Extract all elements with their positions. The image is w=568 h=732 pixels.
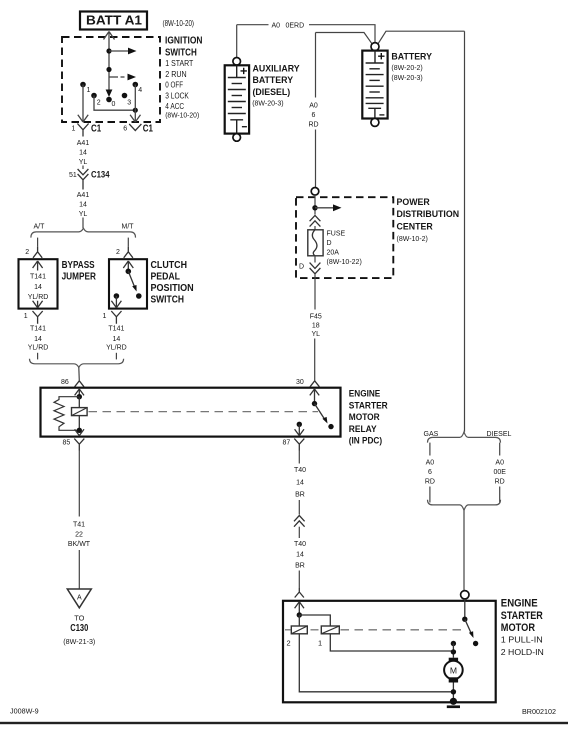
wire A0 0ERD top horizontal	[237, 25, 375, 42]
solenoid motor contact	[473, 641, 478, 646]
wire label A0 6 RD gas	[425, 459, 435, 485]
svg-text:F45: F45	[310, 314, 322, 321]
svg-text:CENTER: CENTER	[397, 221, 434, 231]
svg-text:(8W-10-20): (8W-10-20)	[163, 19, 195, 28]
svg-text:C1: C1	[91, 123, 101, 135]
relay 87 contact node and exit arrow	[295, 422, 304, 436]
svg-text:1 START: 1 START	[165, 58, 193, 68]
svg-text:GAS: GAS	[424, 431, 439, 438]
svg-text:STARTER: STARTER	[501, 610, 543, 622]
engine starter motor box	[283, 601, 496, 703]
PDC bus node with feed arrow	[312, 204, 341, 211]
wire fuse to exit connector	[314, 256, 316, 263]
svg-text:BYPASS: BYPASS	[62, 259, 95, 271]
connector terminal 6 of C1	[123, 123, 153, 135]
svg-text:1: 1	[24, 313, 28, 320]
wire contact 4 to terminal 6 C1	[130, 85, 140, 123]
svg-text:T40: T40	[294, 541, 306, 548]
svg-text:MOTOR: MOTOR	[349, 411, 380, 422]
wire aux battery positive lead	[236, 25, 238, 58]
wire branch to pull-in coil	[299, 615, 330, 626]
svg-text:ENGINE: ENGINE	[349, 388, 381, 399]
wire label A41 14 YL lower	[77, 192, 90, 218]
bypass jumper box	[19, 259, 58, 308]
relay 30 entry arrow	[310, 389, 319, 404]
svg-text:STARTER: STARTER	[349, 399, 388, 410]
svg-text:86: 86	[61, 379, 69, 386]
splice brace A/T M/T	[31, 228, 136, 237]
connector 85	[63, 439, 85, 451]
svg-text:A0: A0	[309, 103, 318, 110]
contact B node dot with START arrow	[106, 48, 136, 55]
wire contact 2 to node under 4	[94, 96, 135, 111]
relay common contact	[312, 401, 317, 406]
svg-text:FUSE: FUSE	[327, 231, 346, 238]
ground G1	[447, 698, 460, 708]
ground bus junction node	[451, 689, 456, 694]
wire contact 1 to terminal 1 C1	[78, 85, 88, 123]
wire label T40 14 BR lower	[294, 541, 306, 569]
engine starter motor relay box	[41, 388, 341, 437]
svg-text:(8W-20-3): (8W-20-3)	[252, 101, 283, 108]
svg-text:0: 0	[112, 101, 116, 108]
contact 0	[106, 97, 115, 108]
svg-text:(8W-21-3): (8W-21-3)	[63, 637, 95, 646]
relay normally-open contact	[328, 424, 333, 429]
connector 87	[283, 439, 305, 451]
wire F45 18 YL to relay 30	[314, 274, 316, 381]
starter control node	[297, 612, 302, 617]
svg-text:T41: T41	[73, 522, 85, 529]
svg-text:14: 14	[296, 552, 304, 559]
wire label T41 22 BK/WT	[68, 522, 91, 548]
svg-text:14: 14	[34, 336, 42, 343]
svg-text:YL: YL	[79, 211, 88, 218]
solenoid switch blade	[465, 619, 474, 638]
contact 3	[122, 93, 132, 107]
wire right feed down to gas/diesel split	[464, 31, 466, 432]
motor feed contact	[451, 641, 456, 646]
svg-text:C134: C134	[91, 168, 110, 179]
contact 1	[80, 82, 90, 94]
aux battery negative terminal	[233, 134, 241, 142]
in-line splice connector	[294, 516, 305, 527]
svg-text:0 OFF: 0 OFF	[165, 80, 183, 90]
svg-text:RD: RD	[308, 122, 318, 129]
svg-text:1: 1	[87, 87, 91, 94]
relay coil lower node	[77, 428, 82, 433]
connector terminal 1 of C1	[72, 123, 102, 137]
contact node dot with dashed ACC arrow	[106, 67, 136, 81]
wire label A0 6 RD	[308, 103, 318, 129]
svg-text:BATTERY: BATTERY	[253, 75, 294, 85]
wire below splice	[298, 527, 300, 538]
relay coil	[72, 397, 88, 431]
wire into starter motor	[298, 571, 300, 589]
svg-text:SWITCH: SWITCH	[151, 294, 185, 306]
contact 4	[133, 82, 143, 94]
svg-text:1 PULL-IN: 1 PULL-IN	[501, 635, 543, 645]
relay label block	[349, 388, 388, 446]
wire solenoid terminal to contact	[464, 599, 466, 619]
wire merge to starter solenoid	[463, 510, 465, 590]
main battery positive terminal	[371, 43, 379, 51]
starter feed connector	[295, 588, 304, 598]
solenoid common contact	[462, 617, 467, 622]
svg-text:14: 14	[79, 150, 87, 157]
svg-text:14: 14	[34, 284, 42, 291]
wire hold-in coil to ground bus	[299, 634, 453, 692]
fuse label	[327, 231, 362, 267]
bypass jumper label	[62, 259, 97, 282]
wire motor feed	[452, 644, 454, 658]
svg-text:A: A	[77, 595, 82, 602]
svg-text:A/T: A/T	[34, 223, 46, 230]
wire into splice	[298, 500, 300, 515]
clutch switch blade	[128, 271, 136, 291]
main battery negative terminal	[371, 118, 379, 126]
wire label A0 00E RD diesel	[493, 459, 506, 485]
motor coil junction node	[451, 649, 456, 654]
off-page triangle A	[67, 589, 91, 608]
svg-text:4: 4	[138, 87, 142, 94]
contact 2	[91, 93, 101, 107]
svg-text:TO: TO	[74, 614, 84, 623]
battery B1	[362, 51, 387, 119]
svg-text:(DIESEL): (DIESEL)	[253, 87, 291, 97]
svg-text:1: 1	[318, 639, 322, 648]
wire pull-in coil to motor node	[330, 634, 453, 651]
starter motor M1	[444, 658, 463, 683]
svg-text:BATT A1: BATT A1	[86, 13, 142, 28]
svg-text:A0: A0	[426, 459, 435, 466]
svg-text:D: D	[299, 264, 304, 271]
wire M/T branch	[127, 238, 129, 247]
wire A/T branch	[37, 238, 39, 247]
svg-text:3 LOCK: 3 LOCK	[165, 91, 189, 101]
wire into A/T M/T split	[82, 218, 84, 229]
svg-text:14: 14	[113, 336, 121, 343]
svg-text:BATTERY: BATTERY	[391, 52, 432, 62]
power distribution center dashed enclosure	[296, 197, 393, 278]
auxiliary battery (diesel)	[225, 65, 249, 133]
svg-text:14: 14	[79, 202, 87, 209]
svg-text:2: 2	[25, 249, 29, 256]
svg-text:1: 1	[72, 126, 76, 133]
clutch switch stationary contact	[136, 293, 142, 299]
svg-text:RD: RD	[495, 478, 505, 485]
wire A0 6 RD to PDC	[315, 33, 317, 188]
svg-text:ENGINE: ENGINE	[501, 598, 538, 610]
wire T40 14 BR upper	[298, 451, 300, 464]
svg-text:BR: BR	[295, 562, 305, 569]
connector pin 2 bypass jumper	[25, 247, 42, 258]
battery positive terminal node with three feeds	[316, 31, 465, 44]
junction node under contact 4	[133, 108, 138, 113]
clutch switch movable contact	[126, 269, 132, 275]
wire stub right into merge	[115, 353, 117, 360]
relay coil upper node	[77, 394, 82, 399]
ignition switch S1 dashed enclosure	[62, 37, 160, 122]
wire label T141 14 YL/RD left lower	[28, 325, 49, 351]
wire label T40 14 BR upper	[294, 467, 306, 498]
svg-text:RD: RD	[425, 478, 435, 485]
svg-text:2 HOLD-IN: 2 HOLD-IN	[501, 647, 544, 657]
relay actuator dashed link	[89, 411, 319, 413]
svg-text:30: 30	[296, 379, 304, 386]
svg-text:A0: A0	[495, 459, 504, 466]
wire gas branch upper	[429, 443, 431, 456]
starter control entry arrow	[295, 602, 304, 615]
fuse D 20A	[308, 230, 323, 256]
svg-text:YL/RD: YL/RD	[106, 345, 127, 352]
clutch switch output contact	[111, 293, 121, 308]
svg-text:(8W-10-20): (8W-10-20)	[165, 110, 199, 119]
svg-text:POWER: POWER	[397, 197, 431, 207]
battery feed label box BATT A1	[80, 12, 147, 30]
connector pin 1 clutch switch	[103, 311, 122, 324]
clutch pedal position switch box	[109, 259, 147, 308]
svg-text:87: 87	[283, 440, 291, 447]
clutch switch entry arrow	[123, 261, 133, 270]
relay switch blade	[315, 404, 328, 424]
svg-text:(8W-20-2): (8W-20-2)	[391, 65, 422, 72]
pull-in coil 1	[318, 626, 339, 648]
svg-text:IGNITION: IGNITION	[165, 36, 203, 47]
svg-text:6: 6	[428, 469, 432, 476]
wire label T141 14 YL/RD right lower	[106, 325, 127, 351]
wire T41 22 BK/WT from relay 85	[78, 451, 80, 590]
svg-text:6: 6	[312, 112, 316, 119]
auxiliary battery label	[252, 64, 300, 108]
aux battery positive terminal	[233, 58, 241, 66]
merge brace to relay terminal 86	[30, 359, 124, 368]
hold-in coil 2	[287, 615, 308, 648]
svg-text:T141: T141	[108, 325, 124, 332]
svg-text:20A: 20A	[327, 250, 340, 257]
svg-text:6: 6	[123, 126, 127, 133]
wire diesel branch upper	[499, 443, 501, 456]
bypass jumper exit arrow	[33, 301, 43, 308]
connector pin 2 clutch switch	[116, 247, 133, 258]
ignition switch label block	[165, 36, 203, 120]
svg-text:T141: T141	[30, 274, 46, 281]
svg-text:18: 18	[312, 322, 320, 329]
PDC input terminal	[311, 188, 319, 196]
svg-text:BK/WT: BK/WT	[68, 541, 91, 548]
svg-text:85: 85	[63, 440, 71, 447]
svg-text:(8W-20-3): (8W-20-3)	[391, 75, 422, 82]
svg-text:DISTRIBUTION: DISTRIBUTION	[397, 209, 460, 219]
svg-text:CLUTCH: CLUTCH	[151, 259, 188, 271]
wire motor to ground	[452, 683, 454, 702]
svg-text:MOTOR: MOTOR	[501, 622, 535, 634]
gas/diesel split brace top	[428, 432, 501, 443]
svg-text:22: 22	[75, 532, 83, 539]
relay 85 exit arrow	[75, 429, 84, 435]
wire stub above C134	[82, 166, 84, 170]
svg-text:C1: C1	[143, 123, 153, 135]
svg-text:2: 2	[116, 249, 120, 256]
wire PDC terminal to bus node	[314, 195, 316, 214]
svg-text:14: 14	[296, 479, 304, 486]
wire stub left into merge	[37, 353, 39, 360]
PDC exit connector cavity D	[299, 263, 320, 274]
clutch pedal position switch label	[151, 259, 194, 306]
starter solenoid battery terminal	[461, 591, 469, 599]
bypass jumper entry arrow	[33, 261, 43, 271]
svg-text:0ERD: 0ERD	[286, 23, 305, 30]
connector pin 1 bypass jumper	[24, 311, 43, 324]
svg-text:M/T: M/T	[122, 223, 135, 230]
svg-text:(8W-10-2): (8W-10-2)	[397, 236, 428, 243]
page bottom rule	[0, 722, 568, 724]
svg-text:SWITCH: SWITCH	[165, 47, 197, 58]
svg-text:YL: YL	[312, 331, 321, 338]
svg-text:YL/RD: YL/RD	[28, 294, 49, 301]
svg-text:DIESEL: DIESEL	[487, 431, 512, 438]
svg-text:1: 1	[103, 313, 107, 320]
in-line connector C134 pin 51	[69, 168, 110, 189]
gas/diesel merge brace bottom	[428, 500, 501, 511]
svg-text:A0: A0	[272, 23, 281, 30]
svg-text:2: 2	[287, 639, 291, 648]
rotor arrow onto contact 0	[106, 90, 113, 98]
svg-text:M: M	[450, 665, 457, 675]
svg-text:YL: YL	[79, 159, 88, 166]
svg-text:T141: T141	[30, 325, 46, 332]
svg-text:PEDAL: PEDAL	[151, 270, 181, 282]
battery label	[391, 52, 432, 82]
starter motor label block	[501, 598, 544, 658]
wire ignition feed vertical to BATT A1	[104, 32, 115, 91]
destination label TO C130	[63, 614, 95, 647]
wire label A41 14 YL upper	[77, 140, 90, 166]
svg-text:51: 51	[69, 172, 77, 179]
connector 86	[61, 379, 84, 387]
svg-text:A41: A41	[77, 192, 90, 199]
wire into fuse	[314, 226, 316, 230]
svg-text:J008W-9: J008W-9	[10, 707, 39, 716]
wire gas branch lower	[429, 487, 431, 503]
svg-text:T40: T40	[294, 467, 306, 474]
bypass jumper internal wire label T141 14 YL/RD	[28, 274, 49, 301]
svg-text:2: 2	[97, 100, 101, 107]
svg-text:AUXILIARY: AUXILIARY	[253, 64, 300, 74]
power distribution center label	[397, 197, 460, 243]
svg-text:A41: A41	[77, 140, 90, 147]
svg-text:2 RUN: 2 RUN	[165, 69, 186, 79]
relay suppression resistor	[54, 397, 79, 431]
svg-text:3: 3	[127, 100, 131, 107]
svg-text:(IN PDC): (IN PDC)	[349, 435, 382, 446]
in-line connector into fuse cavity	[310, 215, 321, 226]
svg-text:00E: 00E	[493, 469, 506, 476]
svg-text:JUMPER: JUMPER	[62, 270, 97, 282]
svg-text:YL/RD: YL/RD	[28, 345, 49, 352]
connector 30	[296, 379, 319, 387]
relay 86 entry arrow	[75, 389, 84, 397]
svg-text:RELAY: RELAY	[349, 423, 377, 434]
svg-text:POSITION: POSITION	[151, 282, 194, 294]
wire merge to 86	[78, 367, 81, 380]
svg-text:D: D	[327, 240, 332, 247]
solenoid actuator dashed link	[285, 629, 462, 631]
svg-text:BR: BR	[295, 491, 305, 498]
wire diesel branch lower	[499, 487, 501, 503]
svg-text:C130: C130	[70, 623, 88, 634]
wire label F45 18 YL	[310, 314, 322, 338]
svg-text:BR002102: BR002102	[522, 707, 556, 716]
svg-text:(8W-10-22): (8W-10-22)	[327, 259, 362, 266]
